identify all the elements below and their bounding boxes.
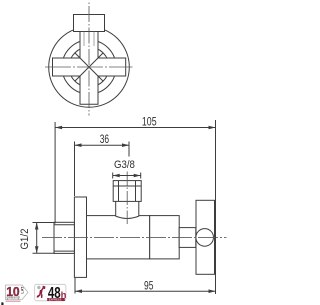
arrow 105 right: [209, 126, 216, 130]
svg-text:LAT: LAT: [20, 286, 24, 294]
figure: wrench raised: [42, 286, 45, 290]
bonnet section: [150, 216, 180, 259]
svg-text:G3/8: G3/8: [114, 159, 135, 171]
outer circle (escutcheon): [49, 27, 130, 108]
arrow 95 right: [209, 289, 216, 293]
svg-text:EXPRESS: EXPRESS: [49, 298, 62, 302]
hub circle: [69, 47, 109, 87]
stem: [179, 228, 196, 248]
svg-text:36: 36: [100, 132, 110, 146]
stem flat left (top view): [83, 32, 85, 47]
svg-text:G1/2: G1/2: [19, 229, 31, 250]
svg-text:105: 105: [142, 114, 157, 128]
arrowheads: [35, 126, 216, 293]
dim 105/95 extension right: [215, 120, 217, 294]
black speck bottom left: [1, 302, 3, 305]
badge 10 LAT gwarancji: [6, 285, 29, 302]
figure: body: [39, 290, 42, 295]
outlet hex nut: [113, 181, 141, 202]
G1/2 ext bottom: [33, 252, 56, 254]
G3/8 dim line: [113, 175, 141, 177]
dim 36 extension right: [128, 142, 130, 157]
diagonal SE: [89, 67, 103, 81]
figure: arm up: [41, 287, 45, 291]
svg-text:gwarancji: gwarancji: [7, 296, 21, 300]
handle bar: [196, 200, 215, 274]
hex flat right: [135, 181, 137, 202]
G1/2 tailpiece: [54, 222, 74, 253]
outlet neck with intersection arc: [116, 201, 139, 218]
vertical centerline top view: [88, 3, 90, 116]
stem flat right (top view): [93, 32, 95, 47]
diagonal NE: [89, 53, 103, 67]
dim 95 line: [75, 290, 216, 292]
dimension texts: [19, 114, 157, 292]
G1/2 ext top: [33, 222, 56, 224]
svg-text:95: 95: [144, 279, 154, 293]
inner circle: [62, 40, 116, 94]
arrow 95 left: [75, 289, 82, 293]
side view horizontal centerline: [42, 237, 227, 239]
dim 36 extension left: [74, 142, 76, 197]
figure: leg kicked: [36, 294, 40, 298]
G1/2 arrow line: [36, 223, 38, 254]
tail thread line bottom: [54, 250, 74, 252]
arrow G1/2 bottom: [35, 246, 39, 253]
cross handle (union outline): [53, 32, 126, 105]
wall flange: [74, 197, 86, 277]
G3/8 ext tick left: [112, 173, 114, 179]
arrow 105 left: [55, 126, 62, 130]
handle hub circle: [196, 229, 214, 247]
valve body: [87, 216, 150, 259]
dim 36 line: [75, 144, 130, 146]
dim 95 extension left: [74, 278, 76, 294]
hex chamfer line: [113, 185, 141, 187]
arrow G3/8 right: [134, 174, 141, 178]
bonnet (top rectangle): [74, 15, 105, 32]
horizontal centerline top view: [45, 66, 133, 68]
hex flat left: [118, 181, 120, 202]
diagonal NW: [75, 53, 89, 67]
dim 105 extension left: [54, 122, 56, 224]
arrow 36 left: [75, 143, 82, 147]
tail thread line top: [54, 224, 74, 226]
banner: [47, 298, 65, 301]
arrow G3/8 left: [113, 174, 120, 178]
figure: leg down: [41, 294, 43, 298]
outlet vertical centerline: [126, 172, 128, 225]
badge 48h: [35, 284, 67, 302]
diagonal SW: [75, 67, 89, 81]
G3/8 ext tick right: [140, 173, 142, 179]
arrow G1/2 top: [35, 223, 39, 230]
arrow 36 right: [122, 143, 129, 147]
figure: head (gray): [37, 286, 40, 289]
dim 105 line: [55, 127, 215, 129]
